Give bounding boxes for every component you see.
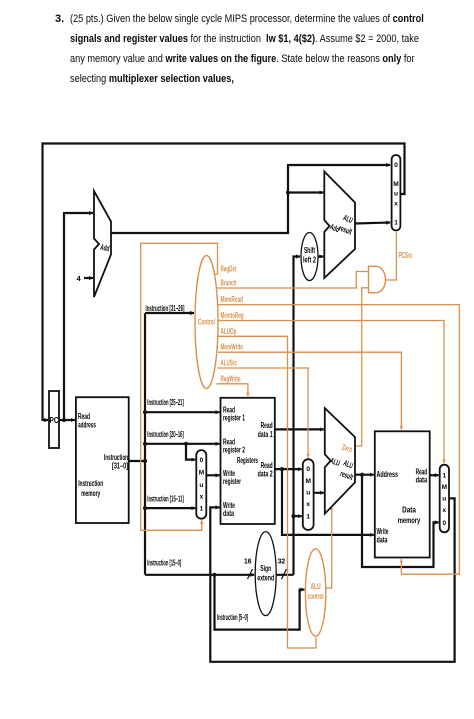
svg-text:register 2: register 2 — [223, 446, 245, 455]
svg-text:data: data — [377, 536, 388, 545]
svg-text:PCSrc: PCSrc — [399, 251, 413, 260]
svg-text:RegDst: RegDst — [221, 265, 237, 274]
svg-text:1: 1 — [394, 220, 398, 227]
svg-text:ALUOp: ALUOp — [221, 327, 237, 336]
svg-text:address: address — [78, 421, 96, 430]
svg-text:RegWrite: RegWrite — [221, 374, 241, 383]
svg-text:data: data — [223, 509, 234, 518]
svg-text:0: 0 — [442, 520, 446, 527]
svg-text:M: M — [393, 181, 398, 188]
svg-text:Sign: Sign — [260, 564, 271, 573]
svg-text:Read: Read — [261, 421, 273, 430]
svg-text:16: 16 — [244, 559, 252, 566]
svg-text:register 1: register 1 — [223, 414, 245, 423]
svg-text:4: 4 — [77, 274, 82, 283]
svg-text:Instruction [20–16]: Instruction [20–16] — [147, 430, 184, 439]
svg-text:data 2: data 2 — [258, 470, 273, 479]
svg-text:MemtoReg: MemtoReg — [221, 311, 244, 320]
svg-text:data 1: data 1 — [258, 430, 273, 439]
svg-text:x: x — [442, 507, 446, 514]
svg-text:0: 0 — [200, 457, 204, 464]
svg-text:u: u — [306, 490, 310, 497]
svg-text:MemRead: MemRead — [221, 295, 244, 304]
svg-text:Branch: Branch — [221, 279, 237, 288]
svg-text:M: M — [199, 470, 204, 477]
svg-text:1: 1 — [306, 514, 310, 521]
svg-text:Instruction [15–0]: Instruction [15–0] — [147, 559, 181, 568]
svg-text:extend: extend — [257, 574, 274, 583]
svg-text:32: 32 — [278, 559, 286, 566]
svg-text:Control: Control — [198, 318, 215, 327]
svg-text:u: u — [394, 191, 398, 198]
svg-text:Data: Data — [402, 506, 416, 515]
svg-text:Instruction [5–0]: Instruction [5–0] — [217, 613, 248, 622]
svg-text:Instruction [25–21]: Instruction [25–21] — [147, 398, 184, 407]
svg-text:Instruction [31–26]: Instruction [31–26] — [146, 304, 185, 313]
svg-text:memory: memory — [81, 489, 100, 498]
svg-text:1: 1 — [200, 506, 204, 513]
svg-text:Instruction: Instruction — [78, 479, 103, 488]
svg-text:Add: Add — [100, 243, 111, 254]
svg-text:register: register — [223, 477, 241, 486]
svg-text:memory: memory — [398, 516, 421, 525]
svg-text:MemWrite: MemWrite — [221, 343, 244, 352]
svg-text:1: 1 — [442, 473, 446, 480]
svg-text:0: 0 — [394, 162, 398, 169]
svg-text:x: x — [306, 501, 310, 508]
svg-text:Instruction [15–11]: Instruction [15–11] — [147, 495, 184, 504]
svg-text:Registers: Registers — [237, 456, 258, 465]
svg-text:data: data — [416, 476, 428, 485]
svg-text:x: x — [200, 494, 204, 501]
svg-text:Address: Address — [377, 470, 399, 479]
svg-text:u: u — [199, 482, 203, 489]
svg-text:ALUSrc: ALUSrc — [221, 359, 238, 368]
svg-text:0: 0 — [306, 466, 310, 473]
svg-text:M: M — [305, 478, 310, 485]
svg-text:[31–0]: [31–0] — [112, 462, 128, 471]
svg-text:u: u — [442, 496, 446, 503]
svg-text:M: M — [442, 484, 447, 491]
svg-text:Shift: Shift — [304, 246, 315, 255]
svg-text:x: x — [394, 201, 398, 208]
svg-text:control: control — [308, 592, 324, 601]
svg-text:PC: PC — [50, 416, 59, 425]
svg-text:left 2: left 2 — [303, 256, 316, 265]
svg-text:ALU: ALU — [311, 582, 321, 591]
